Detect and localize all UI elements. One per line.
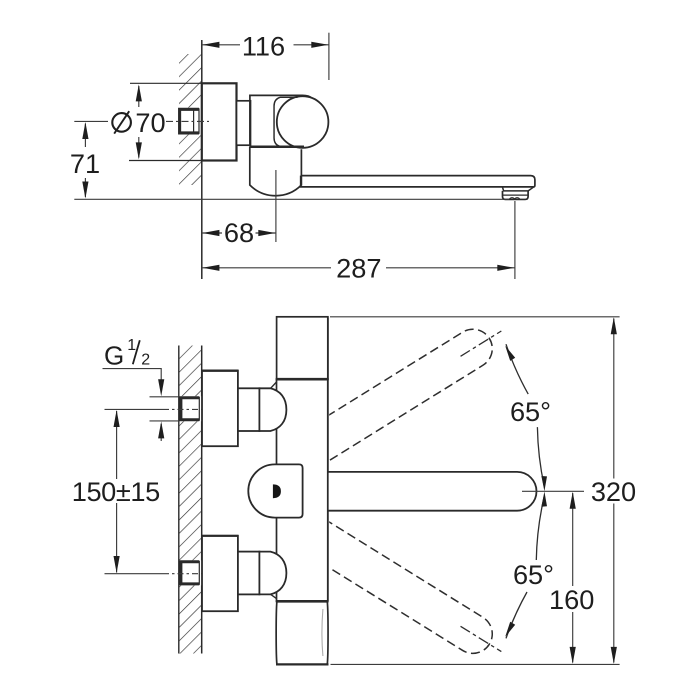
svg-text:68: 68 xyxy=(224,217,254,248)
svg-text:320: 320 xyxy=(591,476,636,507)
svg-text:71: 71 xyxy=(70,148,100,179)
svg-text:116: 116 xyxy=(242,31,285,62)
svg-text:160: 160 xyxy=(549,584,594,615)
svg-text:2: 2 xyxy=(141,351,150,368)
svg-text:287: 287 xyxy=(336,252,381,283)
svg-text:65°: 65° xyxy=(510,396,551,427)
svg-text:G: G xyxy=(104,340,124,370)
svg-text:150±15: 150±15 xyxy=(72,476,160,507)
svg-text:1: 1 xyxy=(127,337,136,354)
svg-text:65°: 65° xyxy=(513,559,554,590)
svg-text:70: 70 xyxy=(135,107,165,138)
